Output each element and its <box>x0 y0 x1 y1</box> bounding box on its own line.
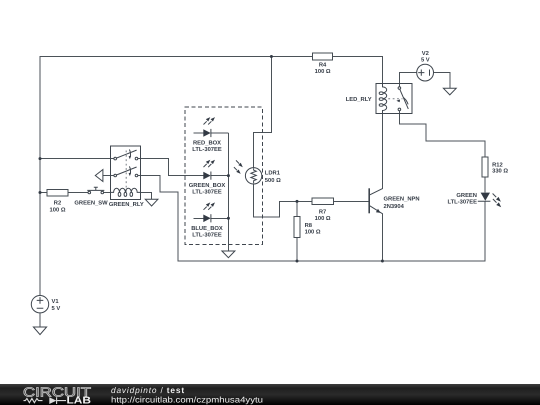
wire: top rail to LDR1 top <box>254 57 272 168</box>
wire: RED_BOX stub <box>193 132 203 134</box>
switch1 arrow <box>129 150 130 158</box>
svg-text:davidpinto / test: davidpinto / test <box>111 385 185 395</box>
wire: green LED to bottom rail to relay switch2 <box>138 176 485 262</box>
junction dots <box>270 55 273 58</box>
wire: R4 right to relay coil top <box>332 57 382 84</box>
relay coil <box>111 188 141 192</box>
svg-text:100 Ω: 100 Ω <box>50 207 66 214</box>
svg-text:RED_BOX: RED_BOX <box>193 140 221 147</box>
photoresistor LDR1 <box>234 160 281 184</box>
wire: R8 to bottom rail <box>296 238 298 261</box>
resistor R7 <box>312 198 333 222</box>
logo diode <box>49 397 56 404</box>
svg-text:V2: V2 <box>422 50 429 57</box>
wire: relay coil bottom to transistor collector <box>381 114 383 189</box>
switch2 contacts <box>114 174 117 177</box>
svg-text:2N3904: 2N3904 <box>384 203 405 210</box>
svg-text:LAB: LAB <box>67 395 92 405</box>
svg-text:R12: R12 <box>492 162 503 169</box>
LED RED_BOX <box>192 117 222 153</box>
wire: V2 left to relay top contact <box>399 73 416 87</box>
svg-text:LTL-307EE: LTL-307EE <box>447 198 477 205</box>
transistor GREEN_NPN <box>369 188 419 214</box>
switch2 blade <box>116 167 136 175</box>
svg-text:BLUE_BOX: BLUE_BOX <box>191 225 223 232</box>
ground below LED box <box>222 251 235 258</box>
contacts <box>398 87 401 90</box>
wire: relay switch1 to GREEN_BOX row <box>138 159 204 176</box>
wire: left rail and top rail <box>40 57 312 296</box>
resistor R4 <box>312 53 332 75</box>
wire: R7 to transistor base <box>333 200 368 202</box>
switch GREEN_SW <box>74 187 108 206</box>
voltage source V2 <box>417 50 434 81</box>
wire: V1 bottom to ground <box>39 313 41 327</box>
wire: BLUE_BOX cathode <box>211 217 229 219</box>
wire: relay bottom contact to R12 <box>399 111 485 157</box>
ground below relay coil <box>145 199 158 206</box>
wire: GREEN_SW to relay coil <box>104 192 111 194</box>
svg-text:LTL-307EE: LTL-307EE <box>192 146 222 153</box>
switch1 blade <box>116 150 136 158</box>
svg-text:LDR1: LDR1 <box>265 170 281 176</box>
wire: flag to relay switch2 <box>103 175 114 177</box>
svg-text:LED_RLY: LED_RLY <box>346 97 372 103</box>
switch2 arrow <box>129 166 130 174</box>
wire: LDR1 bottom to R7/R8 node <box>254 184 297 217</box>
wire: node to R7 <box>297 200 312 202</box>
dashed actuator line <box>388 98 402 100</box>
wire: relay coil right to ground <box>141 193 152 200</box>
svg-text:LTL-307EE: LTL-307EE <box>192 189 222 196</box>
relay GREEN_RLY <box>109 146 144 208</box>
relay LED_RLY <box>346 83 412 113</box>
voltage source V1 <box>31 296 60 313</box>
svg-text:100 Ω: 100 Ω <box>305 229 321 236</box>
logo resistor zigzag <box>24 399 43 403</box>
resistor R2 <box>47 189 68 213</box>
dashed box around LED boxes <box>185 107 262 244</box>
resistor R12 <box>482 157 509 177</box>
svg-text:R7: R7 <box>319 209 326 215</box>
wire: node to R8 <box>296 201 298 216</box>
wire: transistor emitter to bottom rail <box>381 214 383 261</box>
svg-text:GREEN_NPN: GREEN_NPN <box>384 196 420 203</box>
wire: GREEN_BOX cathode to common rail <box>211 175 229 177</box>
svg-text:330 Ω: 330 Ω <box>492 168 508 175</box>
dashed actuator line <box>125 151 127 193</box>
wire: left rail to relay switch1 <box>40 158 114 160</box>
svg-text:http://circuitlab.com/czpmhusa: http://circuitlab.com/czpmhusa4yytu <box>111 394 263 404</box>
wire: LED common cathode rail to ground <box>227 133 229 251</box>
resistor R8 <box>294 217 321 238</box>
LED BLUE_BOX <box>191 202 223 238</box>
coil vertical <box>383 83 387 113</box>
wire: V2 right to ground <box>433 73 449 89</box>
svg-text:GREEN_SW: GREEN_SW <box>74 200 108 207</box>
svg-text:5 V: 5 V <box>421 58 430 64</box>
LED GREEN <box>447 192 501 207</box>
LED GREEN_BOX <box>189 160 226 196</box>
wire: R12 to green LED <box>484 177 486 193</box>
wire: R2 to GREEN_SW <box>68 192 88 194</box>
switch1 contacts <box>114 157 117 160</box>
svg-text:V1: V1 <box>52 299 60 305</box>
wire: RED_BOX cathode <box>211 132 229 134</box>
wire: BLUE_BOX stub <box>193 217 203 219</box>
ground right of V2 <box>443 88 456 95</box>
svg-text:LTL-307EE: LTL-307EE <box>192 231 222 238</box>
svg-text:5 V: 5 V <box>52 306 61 312</box>
svg-text:100 Ω: 100 Ω <box>315 68 331 75</box>
switch blade <box>400 89 409 109</box>
ground below V1 <box>33 327 46 335</box>
svg-text:100 Ω: 100 Ω <box>315 215 331 222</box>
wire: R2 to left rail <box>40 192 47 194</box>
net flag on switch2 <box>95 170 103 182</box>
svg-text:500 Ω: 500 Ω <box>265 177 281 184</box>
svg-text:GREEN_RLY: GREEN_RLY <box>109 201 144 208</box>
svg-text:GREEN_BOX: GREEN_BOX <box>189 182 226 189</box>
svg-text:GREEN: GREEN <box>456 192 477 199</box>
svg-text:R4: R4 <box>319 62 327 68</box>
svg-text:R2: R2 <box>54 200 61 207</box>
svg-text:R8: R8 <box>305 222 313 229</box>
